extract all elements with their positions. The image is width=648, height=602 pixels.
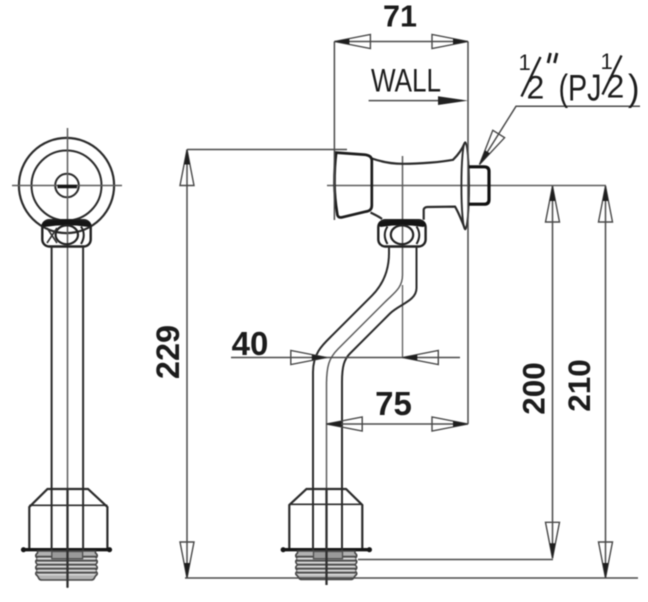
svg-text:229: 229 [150, 325, 186, 379]
svg-text:200: 200 [516, 362, 552, 415]
svg-text:2: 2 [607, 69, 625, 105]
svg-text:71: 71 [383, 0, 417, 34]
svg-text:WALL: WALL [371, 63, 441, 99]
svg-text:2: 2 [527, 70, 545, 106]
svg-text:40: 40 [232, 325, 269, 362]
svg-text:(PJ: (PJ [559, 68, 602, 109]
svg-text:75: 75 [375, 385, 412, 422]
svg-text:): ) [628, 68, 640, 109]
svg-text:210: 210 [561, 359, 597, 412]
